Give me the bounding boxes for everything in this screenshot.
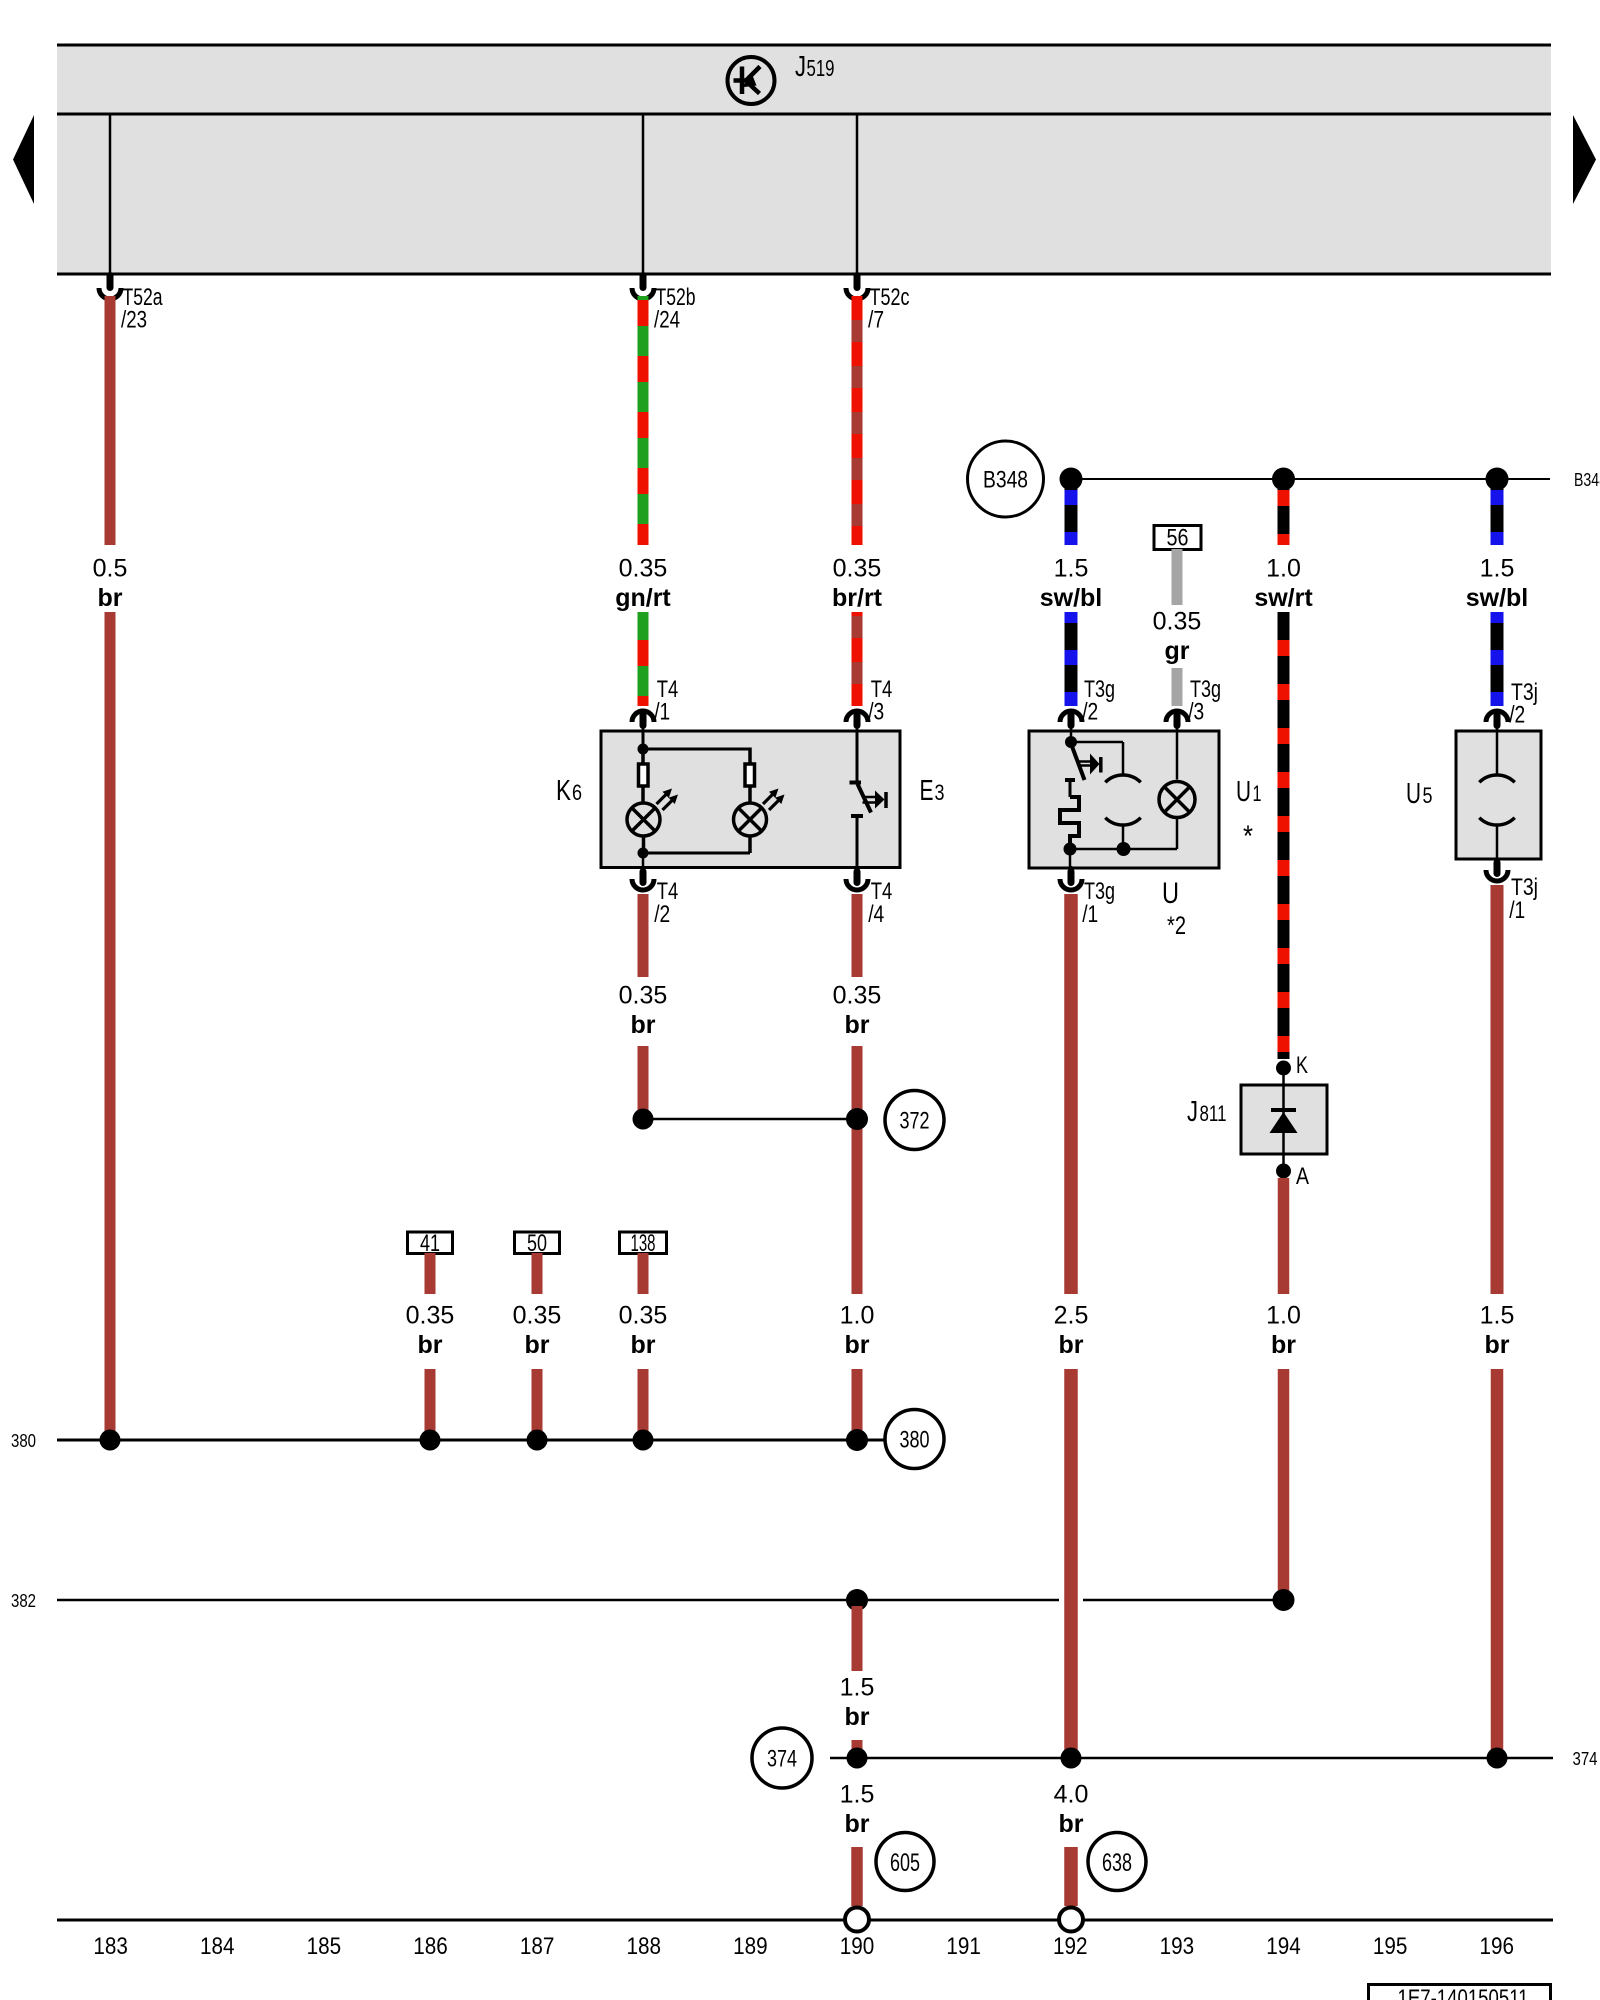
label J811 [1187,1096,1227,1128]
svg-text:1.5: 1.5 [840,1674,875,1702]
U1 switch blade and arrow [1072,745,1101,780]
wire inside band to T52a [109,114,112,276]
wire 1.5 br below 382 (upper) [852,1606,863,1671]
terminal on rail at 190 [845,1908,869,1932]
junction dot on 380 at x=110 [100,1430,121,1451]
junction dot on 382 at x=857 [846,1589,868,1611]
wire 0.35 br from box 138 (upper) [638,1253,649,1294]
socket U5 box [1456,731,1541,859]
label 1.0 sw/rt [1254,555,1313,613]
label 0.35 gn/rt [615,555,671,613]
label 382 left [11,1591,36,1611]
U1 internal top junction [1065,731,1077,748]
label 0.5 br [93,555,128,613]
svg-text:br: br [845,1011,870,1039]
junction on B348 at T3j wire [1486,468,1509,491]
label 1.5 sw/bl [1040,555,1103,613]
svg-text:41: 41 [420,1230,440,1257]
wire 1.0 br from T4/4 (to node 380) [852,1046,863,1294]
svg-text:E: E [920,775,934,807]
label 1.0 br (node 380 drop) [840,1302,875,1360]
svg-text:br: br [525,1331,550,1359]
label 2.5 br [1054,1302,1089,1360]
svg-text:605: 605 [890,1849,920,1877]
svg-text:6: 6 [572,780,582,805]
light arrows (right bulb) [763,789,785,811]
U1 switch lower contact [1065,780,1075,797]
wire 0.5 br from T52a (lower, to node 380) [105,612,116,1434]
terminal box 41 [408,1230,453,1257]
wire 0.35 br from T4/4 (upper) [852,894,863,977]
svg-text:1.5: 1.5 [840,1781,875,1809]
switch E3 blade [858,784,872,813]
label E3 [920,775,945,807]
svg-text:2.5: 2.5 [1054,1302,1089,1330]
connector T52a/23 [99,272,163,334]
wire reference circle 638 [1088,1833,1146,1891]
node reference circle 372 [885,1091,944,1150]
svg-text:189: 189 [733,1933,768,1960]
svg-text:4.0: 4.0 [1054,1781,1089,1809]
wire B348 horizontal line [1071,478,1550,480]
label 4.0 br (374 drop) [1054,1781,1089,1839]
connector T4/1 (top) [632,676,678,732]
wire 0.35 br from T4/2 (upper) [638,894,649,977]
label 380 left [11,1431,36,1451]
svg-text:0.5: 0.5 [93,555,128,583]
connector T3g/2 [1060,676,1115,732]
label 0.35 br (T4/2) [619,982,668,1040]
terminal box 138 [620,1230,667,1257]
svg-text:195: 195 [1373,1933,1408,1960]
part number box 1E7-140150511 [1369,1985,1551,2000]
svg-text:519: 519 [807,55,835,81]
resistor (right filament ballast) [745,764,755,804]
svg-text:1.5: 1.5 [1054,555,1089,583]
svg-text:br: br [1271,1331,1296,1359]
svg-text:0.35: 0.35 [619,555,668,583]
wire inside band to T52c [856,114,859,276]
svg-text:187: 187 [520,1933,555,1960]
svg-text:J: J [1187,1096,1198,1128]
K6 internal node (top junction) [638,731,649,755]
svg-text:br: br [631,1011,656,1039]
svg-text:/3: /3 [868,699,884,726]
svg-text:380: 380 [900,1427,930,1454]
junction on B348 at sw/rt wire [1272,468,1295,491]
label 0.35 br (box 138) [619,1302,668,1360]
wire 0.35 br from box 138 (lower) [638,1369,649,1434]
lamp (left indicator bulb) [627,803,660,836]
terminal on rail at 192 [1059,1908,1083,1932]
svg-text:811: 811 [1200,1101,1227,1126]
node 380 wire [57,1439,885,1442]
svg-text:1.0: 1.0 [1266,555,1301,583]
svg-text:56: 56 [1167,525,1189,552]
svg-text:br: br [1059,1810,1084,1838]
node A of J811 [1276,1154,1309,1190]
connector T3g/1 (bottom) [1060,866,1115,928]
svg-text:638: 638 [1102,1849,1132,1877]
svg-text:sw/bl: sw/bl [1040,584,1103,612]
wire 0.35 br from box 50 (lower) [532,1369,543,1434]
svg-text:U: U [1406,778,1421,810]
switch E3 contact (lower) [851,816,863,868]
lamp (right indicator bulb) [734,803,767,836]
node B348 circle [968,441,1044,517]
junction dot on 374 at x=1497 [1487,1748,1508,1769]
svg-text:0.35: 0.35 [406,1302,455,1330]
wire 1.5 br from T3j/1 (lower, to node 374) [1491,1369,1504,1752]
svg-text:186: 186 [413,1933,448,1960]
terminal box 56 [1154,525,1201,552]
svg-text:/2: /2 [1509,702,1525,729]
svg-text:sw/rt: sw/rt [1254,584,1313,612]
U1 socket symbol arcs [1105,775,1140,849]
connector T3j/1 (bottom) [1486,858,1538,924]
connector T3g/3 [1166,676,1221,732]
wire 0.35 br from box 41 (upper) [425,1253,436,1294]
svg-text:138: 138 [631,1230,656,1257]
svg-text:br: br [845,1810,870,1838]
wire 1.0 br to node 380 [852,1369,863,1434]
wire 1.5 sw/bl right (upper) [1491,486,1504,545]
node reference circle 374 [752,1728,812,1788]
svg-text:382: 382 [11,1591,36,1611]
label 1.5 br (374 drop) [840,1781,875,1839]
node K of J811 [1276,1052,1308,1085]
svg-text:br: br [845,1331,870,1359]
label U *2 (below box) [1162,877,1186,940]
junction dot right (372) [846,1108,868,1130]
label 1.5 br (382-374) [840,1674,875,1732]
label 1.0 br (J811) [1266,1302,1301,1360]
svg-text:U: U [1236,776,1251,808]
svg-text:gr: gr [1165,637,1190,665]
control unit symbol (J519 circle icon) [728,57,775,104]
switch E3 contact (upper) [850,731,862,783]
label 1.5 sw/bl right [1466,555,1529,613]
svg-text:50: 50 [527,1230,547,1257]
svg-text:B348: B348 [1574,470,1600,490]
wire reference circle 605 [876,1833,934,1891]
svg-text:380: 380 [11,1431,36,1451]
svg-text:sw/bl: sw/bl [1466,584,1529,612]
connector T4/4 (bottom) [846,866,892,928]
svg-text:/24: /24 [654,307,680,334]
wire 0.35 br/rt (upper) [852,296,863,545]
terminal box 50 [515,1230,560,1257]
track numbers 183-196 [93,1933,1514,1960]
svg-text:U: U [1162,877,1179,910]
K6 internal wire (top bridge) [643,748,750,765]
svg-text:192: 192 [1053,1933,1088,1960]
label U1 [1236,776,1262,853]
junction dot on 380 at x=430 [420,1430,441,1451]
label K6 [556,775,582,807]
svg-text:/7: /7 [868,307,884,334]
node 382 wire [57,1599,1284,1602]
svg-text:br: br [845,1703,870,1731]
connector T52c/7 [846,272,910,334]
svg-text:br: br [1059,1331,1084,1359]
wire 2.5 br from T3g/1 (lower, to node 374) [1064,1369,1078,1752]
wire 0.35 gr (upper) [1172,549,1183,605]
connector T3j/2 [1486,679,1538,732]
svg-text:A: A [1296,1163,1309,1190]
wire 4.0 br to rail [1064,1847,1078,1906]
wire 1.5 br to rail [851,1847,863,1906]
svg-text:196: 196 [1480,1933,1515,1960]
connector T52b/24 [632,272,696,334]
svg-text:1: 1 [1253,781,1262,806]
svg-text:3: 3 [935,780,945,805]
svg-text:1.5: 1.5 [1480,1302,1515,1330]
resistor (left filament ballast) [639,749,649,804]
svg-text:188: 188 [627,1933,662,1960]
left continuation arrow [13,115,34,204]
wire 1.5 br below 382 (lower) [852,1740,863,1752]
svg-text:1.0: 1.0 [840,1302,875,1330]
U1 thermal element (zigzag) [1060,797,1079,844]
svg-text:374: 374 [1573,1749,1598,1769]
wire 1.5 sw/bl right (lower) [1491,612,1504,706]
U5 socket symbol [1479,731,1514,859]
svg-text:374: 374 [767,1746,797,1773]
U1 internal bottom wire [1064,842,1178,868]
svg-text:185: 185 [307,1933,342,1960]
diode J811 box [1241,1085,1327,1154]
svg-text:/4: /4 [868,901,884,928]
svg-text:191: 191 [946,1933,981,1960]
svg-text:br: br [98,584,123,612]
connector T4/3 (top) [846,676,892,732]
svg-text:190: 190 [840,1933,875,1960]
svg-text:/23: /23 [121,307,147,334]
svg-text:/2: /2 [1082,699,1098,726]
svg-text:183: 183 [93,1933,128,1960]
label 0.35 br (box 41) [406,1302,455,1360]
svg-text:B348: B348 [983,467,1028,494]
junction dot on 374 at x=1071 [1061,1748,1082,1769]
wire 2.5 br from T3g/1 (upper) [1064,894,1078,1294]
wire 1.5 sw/bl (lower) [1065,612,1078,706]
wire 0.35 br from T4/2 (lower) [638,1046,649,1114]
label J519 [795,51,835,83]
svg-text:184: 184 [200,1933,235,1960]
wire 1.0 br from J811 (upper) [1278,1178,1290,1294]
svg-text:br: br [631,1331,656,1359]
right continuation arrow [1573,115,1596,204]
svg-text:br: br [1485,1331,1510,1359]
node 372 wire [643,1118,857,1121]
relay box K6 / switch E3 [601,731,900,868]
svg-text:/1: /1 [1082,901,1098,928]
svg-text:*: * [1243,820,1253,853]
node 374 wire [830,1757,1553,1760]
svg-text:J: J [795,51,806,83]
wire 0.35 br/rt (lower) [852,612,863,706]
node reference circle 380 [885,1410,944,1469]
svg-text:/3: /3 [1188,699,1204,726]
wire 1.0 sw/rt (upper) [1278,486,1290,545]
svg-text:0.35: 0.35 [1153,608,1202,636]
label 374 right [1573,1749,1598,1769]
U1 lamp branch [1159,731,1195,849]
label 0.35 br (box 50) [513,1302,562,1360]
svg-text:1.5: 1.5 [1480,555,1515,583]
svg-text:0.35: 0.35 [833,555,882,583]
label U5 [1406,778,1433,810]
wire 1.5 sw/bl (upper) [1065,486,1078,545]
svg-text:0.35: 0.35 [833,982,882,1010]
diode symbol J811 [1270,1085,1298,1154]
label 0.35 gr [1153,608,1202,666]
label 0.35 br (T4/4) [833,982,882,1040]
junction dot on 382 at x=1283.5 [1273,1589,1295,1611]
connector T4/2 (bottom) [632,866,678,928]
wire 0.5 br from T52a (upper) [105,296,116,545]
svg-text:br/rt: br/rt [832,584,883,612]
wire 1.0 br from J811 (lower, to node 382) [1278,1369,1290,1594]
svg-text:193: 193 [1160,1933,1195,1960]
wire 0.35 gn/rt (upper) [638,296,649,545]
K6 internal wire (bottom bridge) [638,835,751,868]
svg-text:372: 372 [900,1108,930,1135]
wire 0.35 br from box 50 (upper) [532,1253,543,1294]
svg-text:0.35: 0.35 [619,1302,668,1330]
svg-text:1.0: 1.0 [1266,1302,1301,1330]
junction on B348 at T3g wire [1060,468,1083,491]
junction dot left (372) [633,1109,654,1130]
wire 0.35 gr (lower) [1172,668,1183,706]
svg-text:/1: /1 [654,699,670,726]
socket U1 box [1029,731,1219,868]
svg-text:/2: /2 [654,901,670,928]
svg-text:/1: /1 [1509,897,1525,924]
svg-text:0.35: 0.35 [619,982,668,1010]
wire 0.35 br from box 41 (lower) [425,1369,436,1434]
label 1.5 br (T3j/1) [1480,1302,1515,1360]
svg-text:1E7-140150511: 1E7-140150511 [1398,1985,1529,2000]
svg-text:K: K [556,775,572,807]
light arrows (left bulb) [657,789,679,811]
label 0.35 br/rt [832,555,883,613]
junction dot on 374 at x=857 [847,1748,868,1769]
junction dot on 380 at x=857 [846,1429,868,1451]
control unit J519 band [57,45,1551,274]
U1 internal bridge to socket [1071,742,1123,776]
svg-text:br: br [418,1331,443,1359]
svg-text:gn/rt: gn/rt [615,584,671,612]
svg-text:K: K [1296,1052,1308,1079]
junction dot on 380 at x=643 [633,1430,654,1451]
junction dot on 380 at x=537 [527,1430,548,1451]
bottom rail [57,1919,1553,1922]
wire 1.0 sw/rt (lower, to J811) [1278,612,1290,1059]
wire inside band to T52b [642,114,645,276]
svg-text:0.35: 0.35 [513,1302,562,1330]
svg-text:*2: *2 [1167,912,1186,940]
svg-text:194: 194 [1266,1933,1301,1960]
wire 0.35 gn/rt (lower) [638,612,649,706]
svg-text:5: 5 [1423,783,1433,808]
wire 1.5 br from T3j/1 (upper) [1491,885,1504,1294]
switch E3 actuation arrow [863,791,887,809]
label B348 right edge [1574,470,1600,490]
